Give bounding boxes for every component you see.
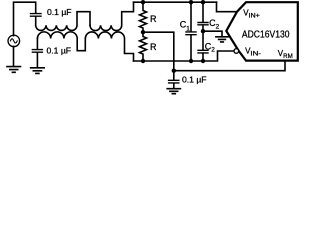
svg-text:0.1 µF: 0.1 µF bbox=[47, 7, 72, 17]
svg-text:0.1 µF: 0.1 µF bbox=[47, 45, 72, 55]
svg-text:ADC16V130: ADC16V130 bbox=[242, 30, 290, 41]
svg-text:R: R bbox=[150, 42, 157, 52]
svg-text:0.1 µF: 0.1 µF bbox=[182, 75, 207, 85]
svg-text:R: R bbox=[150, 14, 157, 24]
